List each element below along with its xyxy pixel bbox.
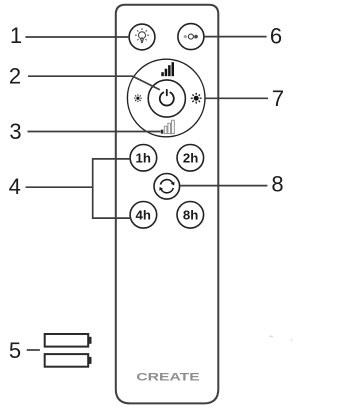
svg-text:5: 5 bbox=[9, 338, 21, 363]
svg-text:4: 4 bbox=[9, 174, 21, 199]
svg-text:2: 2 bbox=[9, 64, 21, 89]
svg-text:4h: 4h bbox=[136, 208, 151, 223]
svg-text:1: 1 bbox=[10, 23, 22, 48]
svg-text:7: 7 bbox=[272, 86, 284, 111]
svg-text:8h: 8h bbox=[183, 208, 198, 223]
svg-text:3: 3 bbox=[9, 119, 21, 144]
svg-text:8: 8 bbox=[271, 172, 283, 197]
svg-text:6: 6 bbox=[270, 23, 282, 48]
svg-text:CREATE: CREATE bbox=[136, 372, 199, 384]
svg-text:2h: 2h bbox=[183, 151, 198, 166]
svg-text:1h: 1h bbox=[136, 151, 151, 166]
